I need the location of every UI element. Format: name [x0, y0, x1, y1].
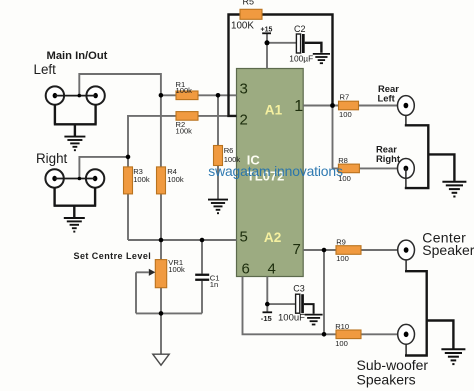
wire VR1 bottom lead — [160, 288, 162, 314]
svg-text:R5: R5 — [243, 0, 255, 7]
ground center/sub jacks path — [405, 260, 407, 356]
svg-text:7: 7 — [293, 241, 301, 258]
resistor R3 — [124, 167, 133, 194]
wire C1 leads — [201, 240, 203, 313]
RCA jack J1 Left input (two sockets) — [46, 86, 105, 104]
svg-text:+15: +15 — [261, 26, 273, 33]
resistor R4 — [157, 167, 166, 194]
wire pin5 row — [128, 239, 237, 241]
RCA jack Rear Right — [398, 159, 415, 179]
wire pin4 column to -15 — [266, 277, 268, 313]
svg-text:2: 2 — [240, 112, 248, 129]
ground symbol below R6 — [208, 200, 228, 214]
svg-text:100k: 100k — [176, 86, 193, 95]
wire pin1 to R7 — [303, 105, 338, 107]
svg-text:R9: R9 — [336, 237, 346, 246]
capacitor C2 electrolytic — [296, 34, 304, 53]
ground right input jacks frame — [54, 187, 97, 217]
wire pin6 feedback and R10 row — [243, 277, 337, 335]
svg-text:swagatam innovations: swagatam innovations — [208, 163, 343, 179]
svg-text:A2: A2 — [264, 230, 282, 245]
wire R9 to Center jack — [361, 249, 406, 251]
wire pin4 node to C3 — [267, 303, 295, 305]
svg-text:4: 4 — [268, 261, 276, 278]
terminal +15 bar — [262, 32, 271, 34]
wire pin7 to R9 — [303, 249, 336, 251]
wire +15 supply column to IC pin 8 — [266, 33, 268, 68]
ground rear jacks path — [405, 115, 407, 188]
svg-text:100µF: 100µF — [289, 54, 313, 64]
svg-text:Speaker: Speaker — [422, 242, 474, 258]
wire R3 bottom to pin5 row — [127, 194, 129, 240]
wire Left jack link — [55, 95, 96, 97]
svg-text:100: 100 — [335, 339, 348, 348]
wire Right jack link — [55, 178, 96, 180]
wire Right down to R3 — [127, 157, 129, 167]
RCA jack Rear Left — [398, 96, 415, 116]
feedback loop R5 (thick black) pin2 to pin1 node — [229, 15, 333, 116]
svg-text:1: 1 — [294, 98, 303, 115]
wire pin1 node down to R8 row — [333, 106, 339, 169]
RCA jack Subwoofer — [398, 324, 415, 344]
svg-text:Set Centre Level: Set Centre Level — [74, 251, 152, 261]
wire C2 to ground corner — [305, 43, 322, 53]
svg-text:Left: Left — [378, 92, 395, 103]
wire Right channel riser — [79, 157, 128, 179]
wire to signal ground triangle — [160, 313, 162, 354]
svg-text:100k: 100k — [133, 175, 150, 184]
wire pin3 line (R1 row) — [161, 94, 237, 96]
RCA jack J2 Right input (two sockets) — [45, 169, 104, 187]
svg-text:R10: R10 — [335, 322, 349, 331]
svg-text:100k: 100k — [168, 265, 185, 274]
wire Right up to R2 row (pin 2) — [128, 116, 237, 157]
wire Left down to R4 — [160, 95, 162, 167]
wire Left channel riser to R1 node — [79, 74, 161, 96]
op-amp IC U1 TL072 body — [237, 69, 304, 277]
svg-text:Left: Left — [34, 62, 57, 77]
resistor R2 — [176, 112, 198, 121]
svg-text:100: 100 — [336, 254, 349, 263]
node junction dots — [126, 40, 335, 336]
capacitor C1 — [195, 274, 209, 281]
ground symbol right input — [64, 218, 85, 232]
ground signal triangle — [153, 354, 169, 365]
svg-text:100k: 100k — [176, 126, 193, 135]
resistor R7 — [339, 101, 359, 110]
wire R8 to Rear Right jack — [359, 167, 406, 169]
ground symbol center/sub — [441, 349, 465, 364]
wire R4 bottom to pin5 row — [160, 194, 162, 240]
ground symbol left input — [64, 137, 85, 151]
svg-text:1n: 1n — [210, 280, 218, 289]
svg-text:Main In/Out: Main In/Out — [47, 50, 108, 62]
terminal -15 bar — [263, 311, 273, 313]
wire pin7 node down to pin6 row — [323, 250, 325, 334]
ground symbol C3 — [305, 315, 323, 325]
wire R10 to Subwoofer jack — [361, 333, 406, 335]
svg-text:Right: Right — [36, 151, 68, 166]
svg-text:Right: Right — [376, 153, 400, 164]
resistor R9 — [336, 246, 361, 255]
svg-text:100K: 100K — [231, 21, 254, 32]
ground symbol rear — [442, 182, 466, 197]
svg-text:100: 100 — [339, 110, 352, 119]
wire +15 node to C2 — [267, 42, 296, 44]
wire bottom rail — [136, 312, 202, 314]
resistor R1 — [176, 91, 198, 100]
RCA jack Center Speaker — [398, 240, 415, 260]
svg-text:100uF: 100uF — [278, 313, 305, 324]
resistor R6 — [214, 146, 223, 166]
capacitor C3 electrolytic — [296, 294, 304, 313]
svg-text:A1: A1 — [265, 103, 283, 118]
resistor R10 — [336, 330, 361, 339]
svg-text:-15: -15 — [261, 314, 273, 323]
wire VR1 wiper — [136, 272, 149, 313]
ground symbol C2 — [313, 54, 330, 63]
svg-text:6: 6 — [242, 261, 250, 278]
svg-text:100k: 100k — [167, 175, 184, 184]
svg-text:3: 3 — [240, 81, 248, 98]
svg-text:C3: C3 — [293, 284, 305, 294]
wire VR1 top lead — [160, 240, 162, 260]
svg-text:Speakers: Speakers — [357, 371, 416, 387]
potentiometer VR1 — [149, 260, 167, 288]
wire R6 column — [217, 95, 219, 199]
resistor R5 — [240, 9, 262, 19]
svg-text:R7: R7 — [340, 92, 350, 101]
wire C3 to ground corner — [304, 304, 314, 314]
resistor R8 — [338, 164, 359, 173]
svg-text:C2: C2 — [294, 24, 306, 34]
wire R7 to Rear Left jack — [359, 105, 406, 107]
svg-text:R6: R6 — [224, 146, 234, 155]
ground left input jacks frame — [54, 104, 97, 136]
node right riser junction — [78, 177, 82, 181]
svg-text:5: 5 — [240, 228, 248, 245]
node left riser junction — [78, 94, 82, 98]
